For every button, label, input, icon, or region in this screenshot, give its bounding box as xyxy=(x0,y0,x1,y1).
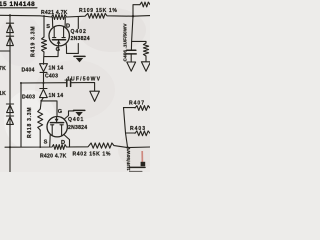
svg-text:2N3824: 2N3824 xyxy=(71,36,90,42)
svg-text:S: S xyxy=(46,24,50,30)
Q401 case lead to chassis ground xyxy=(64,111,74,119)
junction dots xyxy=(9,14,11,16)
earth ground arrow (C403) xyxy=(90,91,100,101)
diode D403 1N914 xyxy=(40,88,47,90)
paper background xyxy=(0,0,150,172)
svg-text:R403: R403 xyxy=(130,126,146,132)
svg-text:1N 14: 1N 14 xyxy=(49,66,64,72)
svg-text:R402 15K 1%: R402 15K 1% xyxy=(73,152,112,158)
svg-text:C403: C403 xyxy=(45,74,58,80)
svg-text:1N 14: 1N 14 xyxy=(49,93,64,99)
resistor (right, to ground) xyxy=(143,43,148,56)
chassis ground (Q401 case) xyxy=(74,109,85,111)
capacitor C406 xyxy=(127,49,136,51)
diode D418 xyxy=(6,115,13,117)
top rail wire xyxy=(0,13,150,19)
svg-text:Q402: Q402 xyxy=(71,29,87,35)
capacitor C403 xyxy=(66,79,68,86)
diode D404 1N914 xyxy=(40,64,48,72)
svg-text:R421 4.7K: R421 4.7K xyxy=(41,10,68,16)
resistor R403 (cut at edge) xyxy=(126,132,136,134)
svg-text:G: G xyxy=(56,47,60,53)
svg-text:.1UF/50WV: .1UF/50WV xyxy=(65,76,102,82)
transistor Q401 2N3824 (JFET, inverted) xyxy=(47,117,67,137)
svg-text:7K: 7K xyxy=(0,66,6,72)
svg-text:C406 .1UF/50WV: C406 .1UF/50WV xyxy=(122,23,127,62)
right column: R407/R403 feed wire xyxy=(124,108,128,148)
svg-text:R407: R407 xyxy=(129,100,145,106)
node wire: clamp midpoint to C403 and down-left to bottom rail xyxy=(21,82,67,84)
svg-text:D403: D403 xyxy=(22,94,35,100)
svg-text:1K: 1K xyxy=(0,91,6,97)
resistor R418 3.3M vertical xyxy=(39,101,42,109)
left vertical wire with diode string xyxy=(9,15,11,172)
diode D417 xyxy=(6,103,13,105)
wire branch to bleed resistor xyxy=(132,41,146,43)
red pen mark xyxy=(141,151,143,164)
svg-text:G: G xyxy=(58,109,62,115)
scan mottle xyxy=(78,8,146,52)
diode D416 1N4148 xyxy=(6,35,13,37)
resistor R407 (cut at edge) xyxy=(124,107,136,109)
svg-text:D404: D404 xyxy=(22,68,35,74)
diode D415 1N4148 xyxy=(6,22,13,24)
bottom rail wire with R420 and R402 xyxy=(5,143,150,149)
svg-text:15 1N4148: 15 1N4148 xyxy=(0,1,35,8)
svg-text:R419 3.3M: R419 3.3M xyxy=(31,26,37,57)
svg-text:R109 15K 1%: R109 15K 1% xyxy=(79,8,118,14)
Q402 gate wire to D404 node xyxy=(44,46,58,57)
resistor (top right, cut) xyxy=(140,2,150,7)
wire up to top-right resistor xyxy=(133,5,140,17)
wire stub from rail at x78 xyxy=(77,17,79,28)
svg-text:R418 3.3M: R418 3.3M xyxy=(27,107,33,138)
svg-text:R420 4.7K: R420 4.7K xyxy=(40,154,67,160)
resistor R419 3.3M vertical xyxy=(43,16,45,37)
svg-text:2N3824: 2N3824 xyxy=(68,125,87,131)
chassis ground (Q402 case) xyxy=(74,55,85,57)
capacitor C404 plate (bottom right, cut) xyxy=(141,162,146,166)
earth ground arrow (C406) xyxy=(127,62,136,71)
Q401 gate wire from D403/R418 node xyxy=(41,101,57,117)
Q401 source lead xyxy=(49,135,52,147)
earth ground arrow (right resistor) xyxy=(141,62,150,71)
Q402 source lead xyxy=(51,17,53,27)
Q402 case lead to chassis ground xyxy=(66,44,78,54)
transistor Q402 2N3824 (JFET) xyxy=(49,26,69,46)
wire stub left xyxy=(0,50,10,52)
wire down to C406 xyxy=(131,16,133,50)
Q402 drain lead xyxy=(64,17,66,26)
Q401 drain lead xyxy=(64,135,69,147)
svg-text:D: D xyxy=(66,23,70,29)
right column: node at rail junction x133 xyxy=(132,15,134,17)
svg-text:S: S xyxy=(44,140,48,146)
svg-text:Q401: Q401 xyxy=(68,117,84,123)
